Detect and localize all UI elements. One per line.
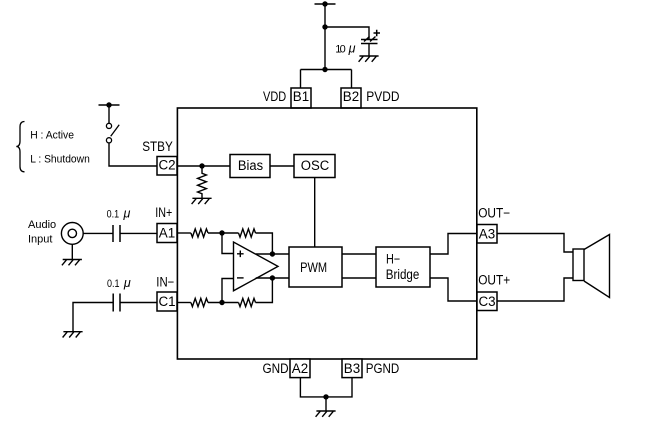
wire PWM to H-Bridge (top): [342, 253, 376, 255]
svg-text:VDD: VDD: [263, 89, 286, 104]
svg-text:Audio: Audio: [28, 219, 56, 231]
svg-text:Input: Input: [28, 234, 52, 246]
node: STBY rail dot: [106, 102, 111, 107]
svg-text:OUT+: OUT+: [478, 273, 510, 288]
brace annotation: [16, 122, 24, 172]
svg-text:C3: C3: [478, 294, 495, 309]
wire node to op-amp -: [222, 279, 234, 303]
capacitor 0.1u (IN-): [113, 294, 120, 312]
ground (STBY pulldown): [192, 198, 212, 204]
IC outline U1: [177, 108, 476, 359]
pin C3 (OUT+): [477, 292, 497, 311]
wire cap to A1: [120, 232, 157, 234]
resistor (IN- input): [191, 298, 208, 306]
wire H-Bridge to C3: [430, 278, 477, 301]
wire node to op-amp +: [222, 233, 234, 254]
svg-text:PGND: PGND: [366, 361, 400, 376]
svg-text:IN+: IN+: [155, 205, 172, 220]
wire to capacitor: [325, 27, 369, 40]
node: op-amp + input: [219, 230, 224, 235]
node: VDD/PVDD split junction: [322, 67, 327, 72]
pin C1 (IN-): [157, 292, 177, 311]
node: bias junction: [199, 163, 204, 168]
ground (IN- return): [63, 332, 83, 338]
wire A3 to speaker: [497, 234, 573, 253]
resistor (STBY pulldown): [198, 166, 207, 198]
resistor (feedback +): [239, 229, 256, 237]
resistor (feedback -): [239, 298, 256, 306]
wire resistor to node: [208, 302, 239, 304]
wire feedback - to output node: [256, 278, 273, 303]
svg-text:10: 10: [335, 44, 346, 56]
wire H-Bridge to A3: [430, 234, 477, 255]
node: top output junction: [270, 251, 275, 256]
capacitor 10u electrolytic: [361, 30, 380, 56]
capacitor 0.1u (IN+): [113, 225, 120, 242]
pin B1 (VDD): [291, 88, 311, 108]
power rail (top supply): [315, 3, 336, 5]
svg-text:μ: μ: [123, 206, 131, 220]
svg-text:IN−: IN−: [156, 275, 174, 290]
node: ground junction: [323, 394, 328, 399]
svg-text:C2: C2: [158, 158, 175, 173]
svg-text:A1: A1: [159, 225, 175, 240]
wire op-amp bottom output to PWM: [256, 277, 289, 279]
svg-text:H−: H−: [386, 252, 400, 267]
svg-text:STBY: STBY: [142, 139, 173, 154]
wire feedback + to output node: [256, 233, 273, 254]
wire op-amp top output to PWM: [256, 253, 289, 255]
svg-text:Bridge: Bridge: [386, 267, 420, 282]
wire A1 to resistor: [177, 232, 191, 234]
power rail (STBY pull-up): [99, 104, 120, 106]
pin B3 (PGND): [342, 359, 362, 378]
svg-text:OUT−: OUT−: [478, 205, 510, 220]
wire Bias to OSC: [270, 165, 294, 167]
block PWM: [289, 247, 342, 287]
wire A2/B3 to ground: [300, 378, 352, 411]
block OSC: [294, 155, 335, 178]
connector J1 (RCA jack): [61, 223, 83, 260]
svg-text:0.1: 0.1: [107, 208, 120, 220]
node: cap branch junction: [322, 24, 327, 29]
wire supply vertical: [324, 4, 326, 70]
svg-text:A3: A3: [479, 226, 495, 241]
svg-text:B2: B2: [343, 89, 359, 104]
wire rail to switch: [108, 105, 110, 123]
pin B2 (PVDD): [341, 88, 361, 108]
node: bottom output junction: [270, 275, 275, 280]
svg-text:Bias: Bias: [238, 158, 263, 173]
wire split to B1 and B2: [301, 70, 352, 89]
block H-Bridge: [376, 247, 430, 287]
svg-text:μ: μ: [348, 42, 356, 56]
ground (jack): [62, 260, 82, 266]
svg-text:GND: GND: [263, 361, 289, 376]
node: supply rail dot: [322, 1, 327, 6]
svg-text:0.1: 0.1: [107, 278, 120, 290]
block Bias: [230, 155, 270, 178]
speaker LS1: [573, 235, 610, 298]
node: op-amp - input: [219, 300, 224, 305]
svg-text:B1: B1: [293, 89, 309, 104]
wire C3 to speaker: [497, 278, 573, 301]
op-amp U2: [234, 242, 279, 291]
svg-text:A2: A2: [292, 361, 308, 376]
wire cap to C1: [120, 302, 157, 304]
wire PWM to H-Bridge (bottom): [342, 277, 376, 279]
svg-text:B3: B3: [344, 361, 360, 376]
ground (below 10u cap): [359, 56, 379, 62]
wire ground to cap: [73, 303, 113, 332]
svg-text:PVDD: PVDD: [366, 89, 399, 104]
pin C2 (STBY): [157, 157, 177, 176]
ground (system): [316, 411, 336, 417]
svg-text:C1: C1: [158, 294, 175, 309]
pin A2 (GND): [290, 359, 310, 378]
wire jack to cap: [83, 232, 113, 234]
wire OSC to PWM: [314, 178, 316, 248]
wire C2 to Bias: [177, 165, 230, 167]
wire C1 to resistor: [177, 302, 191, 304]
svg-text:L : Shutdown: L : Shutdown: [30, 153, 90, 165]
svg-text:H : Active: H : Active: [30, 130, 74, 142]
pin A1 (IN+): [157, 224, 177, 243]
pin A3 (OUT-): [477, 225, 497, 244]
wire switch to C2: [109, 143, 157, 166]
wire resistor to node: [208, 232, 239, 234]
svg-text:μ: μ: [123, 276, 131, 290]
svg-text:PWM: PWM: [300, 260, 327, 275]
switch SW (standby): [106, 123, 119, 143]
svg-text:OSC: OSC: [301, 158, 330, 173]
resistor (IN+ input): [191, 229, 208, 237]
